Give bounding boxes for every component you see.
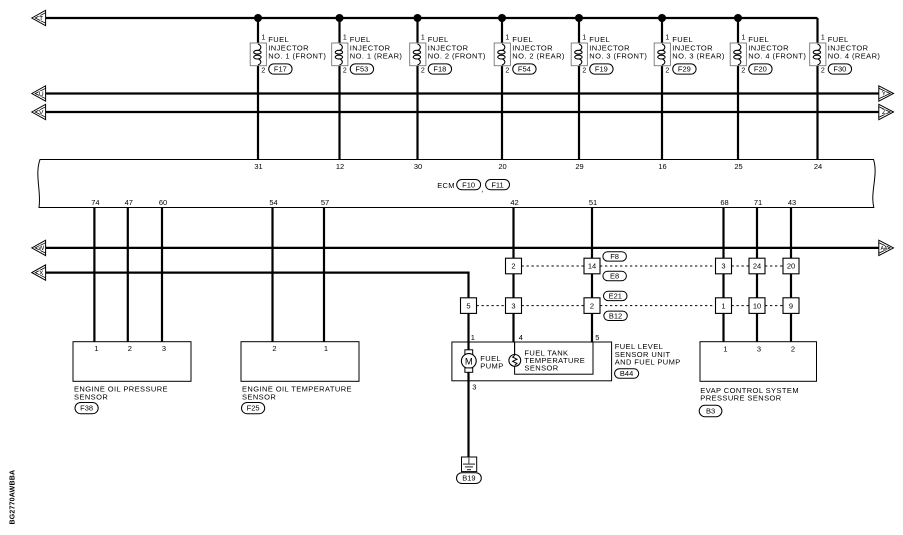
- wire: dashed connector joints row 1: [522, 265, 784, 267]
- wire: ECM pin 51 down: [591, 208, 593, 343]
- svg-text:F11: F11: [491, 180, 503, 189]
- svg-text:10: 10: [753, 301, 761, 310]
- svg-text:F10: F10: [462, 180, 475, 189]
- wire: ECM pin 71 down: [756, 208, 758, 342]
- label: FUEL INJECTOR NO. 1 (FRONT): [268, 35, 326, 60]
- fuel level sensor unit and fuel pump B44 (outer box): [452, 342, 612, 381]
- wire: ECM pin 54 down: [271, 208, 273, 342]
- connector label F18: [428, 64, 451, 74]
- svg-text:3: 3: [757, 345, 761, 354]
- svg-text:F25: F25: [247, 404, 260, 413]
- svg-text:2: 2: [505, 67, 509, 74]
- wire: injector F19 branch from bus to ECM pin 29: [578, 18, 580, 160]
- pin 1 of oil temperature sensor: [324, 344, 328, 353]
- comma between connector labels: [482, 185, 484, 194]
- svg-text:14: 14: [588, 262, 596, 271]
- svg-text:4: 4: [519, 333, 523, 342]
- pin 2 connector joint at x=592 row y=305.6: [584, 298, 600, 314]
- fuel injector F53 (coil): [332, 43, 348, 66]
- svg-text:1: 1: [421, 35, 425, 42]
- svg-text:F18: F18: [433, 65, 446, 74]
- pin 1 connector joint at x=723.5 row y=305.6: [716, 298, 732, 314]
- wire: ECM pin 57 down: [323, 208, 325, 342]
- wire: bus V-Z: [46, 111, 879, 113]
- svg-text:1: 1: [343, 35, 347, 42]
- pin 12 of ECM (top): [336, 162, 344, 171]
- pin 24 connector joint at x=757 row y=266.0: [749, 258, 765, 274]
- pin 1 of injector F20: [741, 35, 745, 42]
- pin 5 connector joint at x=468.5 row y=305.6: [461, 298, 477, 314]
- svg-text:3: 3: [162, 344, 166, 353]
- svg-text:43: 43: [788, 198, 796, 207]
- svg-text:25: 25: [734, 162, 742, 171]
- svg-text:20: 20: [498, 162, 506, 171]
- connector label B12: [604, 311, 628, 320]
- wire: fuel pump pin 3 to ground: [467, 372, 469, 457]
- harness arrow U (left): [32, 86, 46, 101]
- label: FUEL PUMP: [480, 354, 503, 370]
- wire: X line to fuel pump: [46, 273, 469, 342]
- svg-text:42: 42: [510, 198, 518, 207]
- node: junction dot injector branch 2: [336, 14, 344, 22]
- label: FUEL INJECTOR NO. 3 (FRONT): [589, 35, 647, 60]
- wire: dashed connector joints row 2: [477, 305, 784, 307]
- pin 9 connector joint at x=791 row y=305.6: [783, 298, 799, 314]
- label: FUEL LEVEL SENSOR UNIT AND FUEL PUMP: [615, 342, 681, 366]
- pin 1 of oil pressure sensor: [94, 344, 98, 353]
- svg-text:F19: F19: [595, 65, 608, 74]
- fuel pump motor M: [461, 342, 476, 372]
- label: FUEL INJECTOR NO. 3 (REAR): [672, 35, 725, 60]
- pin 71 of ECM (bottom): [754, 198, 762, 207]
- connector label F25: [242, 403, 265, 414]
- wire: ECM pin 60 down: [161, 208, 163, 342]
- svg-text:57: 57: [321, 198, 329, 207]
- svg-text:31: 31: [254, 162, 262, 171]
- wire: injector F30 branch from bus to ECM pin 24: [816, 18, 818, 160]
- pin 1 of injector F53: [343, 35, 347, 42]
- pin 2 of injector F53: [343, 67, 347, 74]
- pin 1 of injector F19: [582, 35, 586, 42]
- pin 1 of injector F54: [505, 35, 509, 42]
- wire: injector F29 branch from bus to ECM pin 16: [661, 18, 663, 160]
- svg-text:24: 24: [814, 162, 822, 171]
- svg-text:60: 60: [159, 198, 167, 207]
- label: EVAP CONTROL SYSTEM PRESSURE SENSOR: [700, 386, 799, 403]
- EVAP control system pressure sensor B3: [700, 342, 817, 382]
- fuel injector F19 (coil): [571, 43, 587, 66]
- wire: ECM pin 74 down: [93, 208, 95, 342]
- wire: injector F17 branch from bus to ECM pin 31: [257, 18, 259, 160]
- label: FUEL INJECTOR NO. 2 (FRONT): [428, 35, 486, 60]
- node: junction dot injector branch 1: [254, 14, 262, 22]
- harness arrow W (left): [32, 240, 46, 255]
- svg-text:V: V: [39, 109, 44, 116]
- pin 1 of injector F29: [665, 35, 669, 42]
- connector label E8: [603, 271, 627, 280]
- pin 47 of ECM (bottom): [125, 198, 133, 207]
- pin 1 of EVAP pressure sensor: [723, 345, 727, 354]
- label: FUEL INJECTOR NO. 2 (REAR): [512, 35, 565, 60]
- node: junction dot injector branch 4: [498, 14, 506, 22]
- svg-text:2: 2: [261, 67, 265, 74]
- label: FUEL INJECTOR NO. 1 (REAR): [350, 35, 403, 60]
- wire: injector F20 branch from bus to ECM pin 25: [737, 18, 739, 160]
- pin 2 of injector F17: [261, 67, 265, 74]
- connector label F30: [828, 64, 851, 74]
- svg-text:ECM: ECM: [437, 181, 455, 190]
- connector label F29: [673, 64, 696, 74]
- svg-text:F17: F17: [274, 65, 287, 74]
- connector label B3: [699, 405, 722, 416]
- svg-text:1: 1: [471, 333, 475, 342]
- harness arrow AA (right): [879, 240, 894, 255]
- fuel tank temperature sensor (inner box): [515, 342, 593, 374]
- connector label B44: [615, 369, 639, 379]
- fuel injector F20 (coil): [730, 43, 746, 66]
- wire: bus W-AA: [46, 247, 879, 249]
- wire: injector F54 branch from bus to ECM pin 20: [501, 18, 503, 160]
- pin 10 connector joint at x=757 row y=305.6: [749, 298, 765, 314]
- svg-text:20: 20: [787, 262, 795, 271]
- svg-text:M: M: [465, 356, 473, 367]
- svg-text:2: 2: [741, 67, 745, 74]
- pin 2 of oil temperature sensor: [272, 344, 276, 353]
- svg-text:2: 2: [821, 67, 825, 74]
- pin 42 of ECM (bottom): [510, 198, 518, 207]
- wire: fuel injector supply bus: [46, 17, 818, 19]
- node: junction dot injector branch 6: [658, 14, 666, 22]
- pin 3 of oil pressure sensor: [162, 344, 166, 353]
- ground B19 (body ground): [462, 457, 477, 472]
- svg-text:2: 2: [791, 345, 795, 354]
- fuel injector F30 (coil): [810, 43, 826, 66]
- pin 4 of fuel tank temperature sensor: [519, 333, 523, 342]
- svg-text:3: 3: [721, 262, 725, 271]
- pin 51 of ECM (bottom): [589, 198, 597, 207]
- svg-text:1: 1: [721, 301, 725, 310]
- svg-text:T: T: [39, 15, 43, 22]
- pin 31 of ECM (top): [254, 162, 262, 171]
- svg-text:47: 47: [125, 198, 133, 207]
- svg-text:F8: F8: [610, 252, 619, 261]
- pin 3 connector joint at x=723.5 row y=266.0: [716, 258, 732, 274]
- ECM U1 (F10),(F11): [38, 160, 875, 208]
- svg-text:2: 2: [272, 344, 276, 353]
- pin 29 of ECM (top): [575, 162, 583, 171]
- engine oil pressure sensor F38: [73, 342, 191, 382]
- pin 20 connector joint at x=791 row y=266.0: [783, 258, 799, 274]
- connector label F53: [350, 64, 373, 74]
- connector label F54: [513, 64, 536, 74]
- svg-text:F29: F29: [678, 65, 691, 74]
- pin 1 of injector F30: [821, 35, 825, 42]
- pin 1 of fuel pump: [471, 333, 475, 342]
- svg-text:F53: F53: [355, 65, 368, 74]
- svg-text:51: 51: [589, 198, 597, 207]
- svg-text:5: 5: [466, 301, 470, 310]
- svg-text:71: 71: [754, 198, 762, 207]
- fuel injector F18 (coil): [410, 43, 426, 66]
- node: junction dot injector branch 3: [414, 14, 422, 22]
- wire: ECM pin 47 down: [127, 208, 129, 342]
- svg-text:B19: B19: [462, 474, 475, 483]
- harness arrow Y (right): [879, 86, 894, 101]
- svg-text:2: 2: [665, 67, 669, 74]
- svg-text:W: W: [38, 245, 45, 252]
- connector label F20: [749, 64, 772, 74]
- pin 25 of ECM (top): [734, 162, 742, 171]
- connector label E21: [604, 291, 628, 300]
- pin 2 of injector F54: [505, 67, 509, 74]
- node: junction dot injector branch 7: [734, 14, 742, 22]
- svg-text:5: 5: [595, 333, 599, 342]
- pin 2 connector joint at x=513.5 row y=266.0: [506, 258, 522, 274]
- svg-text:AA: AA: [880, 246, 887, 252]
- pin 14 connector joint at x=592 row y=266.0: [584, 258, 600, 274]
- pin 3 of fuel pump: [472, 382, 476, 391]
- svg-text:1: 1: [582, 35, 586, 42]
- svg-text:X: X: [39, 270, 44, 277]
- fuel injector F29 (coil): [654, 43, 670, 66]
- svg-text:9: 9: [789, 301, 793, 310]
- connector label F11: [486, 180, 510, 190]
- pin 2 of oil pressure sensor: [128, 344, 132, 353]
- connector label F38: [75, 403, 98, 414]
- pin 60 of ECM (bottom): [159, 198, 167, 207]
- svg-text:BG2770AWBBA: BG2770AWBBA: [10, 470, 17, 525]
- svg-text:,: ,: [482, 185, 484, 194]
- label: FUEL INJECTOR NO. 4 (REAR): [828, 35, 881, 60]
- pin 2 of injector F20: [741, 67, 745, 74]
- svg-text:3: 3: [511, 301, 515, 310]
- svg-text:2: 2: [590, 301, 594, 310]
- svg-text:F54: F54: [518, 65, 531, 74]
- svg-text:FUELPUMP: FUELPUMP: [480, 354, 503, 370]
- svg-text:B3: B3: [706, 407, 715, 416]
- harness arrow X (left): [32, 265, 46, 280]
- harness arrow Z (right): [879, 104, 894, 119]
- pin 20 of ECM (top): [498, 162, 506, 171]
- pin 54 of ECM (bottom): [269, 198, 277, 207]
- svg-text:3: 3: [472, 382, 476, 391]
- svg-text:B44: B44: [620, 369, 633, 378]
- fuel tank temperature sensor (thermistor): [509, 342, 521, 366]
- svg-text:U: U: [39, 91, 44, 98]
- svg-text:2: 2: [343, 67, 347, 74]
- svg-text:F20: F20: [754, 65, 767, 74]
- pin 57 of ECM (bottom): [321, 198, 329, 207]
- svg-text:1: 1: [723, 345, 727, 354]
- fuel injector F54 (coil): [494, 43, 510, 66]
- node: junction dot injector branch 5: [575, 14, 583, 22]
- pin 1 of injector F17: [261, 35, 265, 42]
- connector label F10: [457, 180, 481, 190]
- svg-text:F30: F30: [833, 65, 846, 74]
- pin 43 of ECM (bottom): [788, 198, 796, 207]
- label: ENGINE OIL TEMPERATURE SENSOR: [242, 385, 352, 402]
- engine oil temperature sensor F25: [241, 342, 359, 382]
- pin 3 of EVAP pressure sensor: [757, 345, 761, 354]
- wire: bus U-Y: [46, 92, 879, 94]
- pin 5 of fuel level sensor unit: [595, 333, 599, 342]
- svg-text:2: 2: [128, 344, 132, 353]
- pin 2 of EVAP pressure sensor: [791, 345, 795, 354]
- label: ECM: [437, 181, 455, 190]
- fuel injector F17 (coil): [250, 43, 266, 66]
- svg-text:1: 1: [94, 344, 98, 353]
- svg-text:2: 2: [421, 67, 425, 74]
- pin 30 of ECM (top): [414, 162, 422, 171]
- svg-text:E8: E8: [610, 272, 619, 281]
- label: FUEL INJECTOR NO. 4 (FRONT): [748, 35, 806, 60]
- svg-text:E21: E21: [609, 292, 622, 301]
- svg-text:54: 54: [269, 198, 277, 207]
- pin 2 of injector F30: [821, 67, 825, 74]
- connector label F8: [603, 252, 627, 261]
- pin 68 of ECM (bottom): [720, 198, 728, 207]
- wire: ECM pin 68 down: [722, 208, 724, 342]
- svg-text:1: 1: [741, 35, 745, 42]
- label: diagram id ABBWA0772GB: [10, 470, 17, 525]
- harness arrow V (left): [32, 104, 46, 119]
- svg-text:1: 1: [821, 35, 825, 42]
- label: FUEL TANK TEMPERATURE SENSOR: [524, 349, 585, 373]
- svg-text:1: 1: [505, 35, 509, 42]
- svg-text:2: 2: [582, 67, 586, 74]
- harness arrow T (to next sheet, left): [32, 10, 46, 25]
- svg-text:1: 1: [324, 344, 328, 353]
- svg-text:29: 29: [575, 162, 583, 171]
- svg-text:F38: F38: [80, 404, 93, 413]
- svg-text:16: 16: [658, 162, 666, 171]
- svg-text:12: 12: [336, 162, 344, 171]
- connector label F17: [269, 64, 292, 74]
- svg-text:B12: B12: [609, 311, 622, 320]
- svg-text:1: 1: [665, 35, 669, 42]
- pin 1 of injector F18: [421, 35, 425, 42]
- svg-text:1: 1: [261, 35, 265, 42]
- wire: injector F18 branch from bus to ECM pin 30: [416, 18, 418, 160]
- svg-text:74: 74: [91, 198, 99, 207]
- connector label B19: [457, 473, 482, 484]
- svg-text:2: 2: [511, 262, 515, 271]
- wire: injector F53 branch from bus to ECM pin 12: [338, 18, 340, 160]
- pin 24 of ECM (top): [814, 162, 822, 171]
- svg-text:24: 24: [753, 262, 761, 271]
- label: ENGINE OIL PRESSURE SENSOR: [74, 385, 168, 402]
- svg-text:Y: Y: [882, 91, 887, 98]
- wire: ECM pin 43 down: [790, 208, 792, 342]
- pin 2 of injector F29: [665, 67, 669, 74]
- svg-text:68: 68: [720, 198, 728, 207]
- pin 2 of injector F19: [582, 67, 586, 74]
- svg-text:30: 30: [414, 162, 422, 171]
- connector label F19: [590, 64, 613, 74]
- pin 74 of ECM (bottom): [91, 198, 99, 207]
- pin 16 of ECM (top): [658, 162, 666, 171]
- pin 2 of injector F18: [421, 67, 425, 74]
- wire: ECM pin 42 down: [512, 208, 514, 343]
- svg-text:Z: Z: [882, 109, 886, 116]
- pin 3 connector joint at x=513.5 row y=305.6: [506, 298, 522, 314]
